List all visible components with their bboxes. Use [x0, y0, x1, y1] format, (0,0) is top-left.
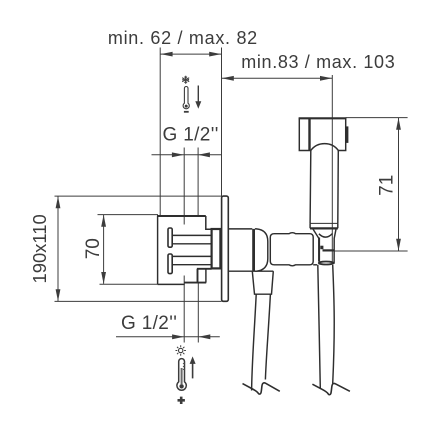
- icon hot: sun: [176, 345, 193, 390]
- arrowhead of cold down arrow: [195, 101, 201, 109]
- sprayer flange bottom bold: [310, 227, 338, 229]
- arrow C onto left pipe: [172, 152, 184, 157]
- holder cup inner left bold: [318, 238, 320, 262]
- handle knob: [270, 233, 313, 266]
- arrow G bottom: [396, 239, 401, 251]
- sprayer handle sides: [310, 151, 338, 224]
- svg-text:190x110: 190x110: [29, 214, 50, 283]
- valve body left edge: [157, 216, 159, 284]
- svg-text:min. 62 / max. 82: min. 62 / max. 82: [108, 28, 258, 48]
- icon hot: plus: [178, 397, 185, 404]
- wall plate: [222, 196, 229, 301]
- arrow E top: [56, 196, 61, 208]
- arrow C onto right pipe: [198, 152, 210, 157]
- holder bold bar: [323, 249, 335, 251]
- left hose lines: [252, 294, 257, 390]
- valve body right edge upper: [206, 216, 212, 229]
- handle-to-cup ledge: [313, 264, 317, 266]
- icon cold: snowflake: [182, 76, 198, 112]
- holder cup bottom ellipse: [319, 262, 334, 265]
- arrow D onto right pipe: [198, 334, 210, 339]
- spout/sleeve bottom line: [252, 270, 273, 272]
- pipe wall right x=198.3 lower: [197, 283, 199, 343]
- sprayer head: [299, 118, 345, 150]
- arrowheads: [56, 52, 401, 340]
- icon cold: down arrow: [197, 86, 199, 104]
- arrow A right: [209, 52, 221, 57]
- sprayer handle seam: [310, 222, 338, 224]
- right hose break squiggle: [312, 383, 350, 394]
- right hose lines: [318, 265, 321, 389]
- arrowhead of hot up arrow: [190, 356, 196, 364]
- dimension D G1/2 bottom line: [116, 336, 220, 338]
- dimension E 190x110 line: [57, 197, 59, 302]
- svg-text:70: 70: [83, 238, 104, 259]
- dimension G 71 line: [398, 118, 400, 251]
- svg-text:G 1/2'': G 1/2'': [121, 313, 177, 334]
- sprayer dome: [311, 144, 339, 151]
- escutcheon sleeve: [228, 229, 252, 271]
- ref line plate top y=196.1: [55, 195, 222, 197]
- dimension A min62/max82 line: [55, 48, 408, 343]
- holder cup right wall: [334, 229, 336, 264]
- main outlines: [157, 118, 347, 390]
- svg-text:min.83 / max. 103: min.83 / max. 103: [241, 52, 395, 72]
- pipe wall left x=184.2 upper: [183, 148, 185, 225]
- extension line x=221.5 wall surface: [221, 48, 223, 197]
- outlet spout: [252, 271, 273, 294]
- ref line plate bottom y=301.4: [55, 300, 222, 302]
- dimension B min83/max103 line: [222, 77, 333, 79]
- arrow B right: [320, 76, 332, 81]
- escutcheon joint bold: [252, 229, 255, 271]
- holder cup left wall: [313, 229, 319, 261]
- ref line 71 bottom y=251: [334, 250, 408, 252]
- sprayer face line bold: [308, 119, 310, 151]
- arrow D onto left pipe: [172, 334, 184, 339]
- holder cup rim arc: [319, 234, 333, 238]
- ref line 70 top: [98, 214, 159, 216]
- union bar 1: [172, 235, 211, 243]
- ref line 71 top y=117.5: [346, 117, 408, 119]
- sprayer flange sides: [310, 223, 338, 228]
- icon hot: thermometer: [177, 359, 186, 391]
- ref line 70 bottom: [100, 283, 158, 285]
- escutcheon cap: [255, 229, 268, 271]
- extension line x=160.2: [159, 48, 161, 217]
- valve neck through wall: [212, 229, 221, 268]
- arrow F bottom: [101, 272, 106, 284]
- svg-text:G 1/2'': G 1/2'': [163, 125, 219, 146]
- sprayer button: [346, 126, 349, 142]
- arrow F top: [101, 215, 106, 227]
- svg-text:71: 71: [377, 175, 398, 196]
- arrow A left: [161, 52, 173, 57]
- extension line sprayer centerline x=332.3: [331, 75, 333, 264]
- arrow B left: [222, 76, 234, 81]
- arrow E bottom: [56, 289, 61, 301]
- valve body bottom staircase bold: [197, 268, 212, 270]
- holder set screw: [320, 246, 323, 250]
- valve body top edge bold: [157, 215, 206, 217]
- dimension F 70 line: [103, 215, 105, 284]
- valve body bottom thin: [158, 283, 185, 285]
- icon hot: up arrow: [192, 363, 194, 379]
- sprayer head top bold: [299, 117, 347, 119]
- left hose break squiggle: [243, 383, 280, 394]
- pipe wall left x=184.2 lower: [183, 276, 185, 343]
- arrow G top: [396, 118, 401, 130]
- union bar 2: [172, 256, 211, 264]
- icon cold: minus: [184, 111, 189, 113]
- union flange 2: [168, 254, 172, 274]
- pipe wall right x=198.1 upper: [197, 148, 199, 217]
- icon cold: thermometer: [183, 87, 189, 109]
- union flange 1: [168, 228, 172, 247]
- dimension C G1/2 top line: [152, 154, 222, 156]
